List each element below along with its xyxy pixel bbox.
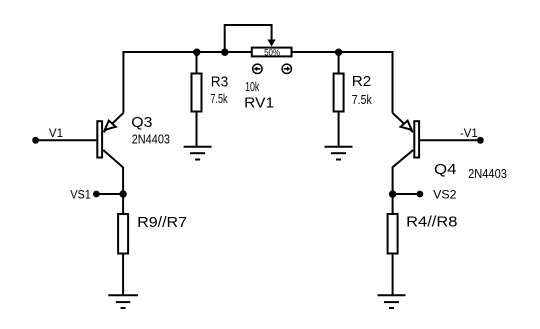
svg-text:RV1: RV1 bbox=[244, 94, 274, 111]
svg-text:Q4: Q4 bbox=[434, 161, 457, 178]
svg-text:R2: R2 bbox=[352, 73, 372, 90]
svg-text:VS2: VS2 bbox=[433, 188, 457, 202]
svg-text:2N4403: 2N4403 bbox=[468, 167, 507, 181]
svg-text:10k: 10k bbox=[245, 80, 260, 94]
svg-text:R3: R3 bbox=[211, 73, 229, 90]
svg-text:2N4403: 2N4403 bbox=[132, 132, 170, 146]
svg-text:V1: V1 bbox=[49, 126, 63, 140]
svg-text:7.5k: 7.5k bbox=[211, 92, 229, 106]
svg-text:VS1: VS1 bbox=[70, 188, 91, 202]
svg-text:R4//R8: R4//R8 bbox=[406, 214, 457, 231]
svg-text:50%: 50% bbox=[264, 48, 280, 58]
svg-text:Q3: Q3 bbox=[131, 114, 152, 131]
svg-text:-V1: -V1 bbox=[460, 126, 478, 140]
svg-text:7.5k: 7.5k bbox=[352, 93, 373, 107]
svg-text:R9//R7: R9//R7 bbox=[137, 214, 187, 231]
